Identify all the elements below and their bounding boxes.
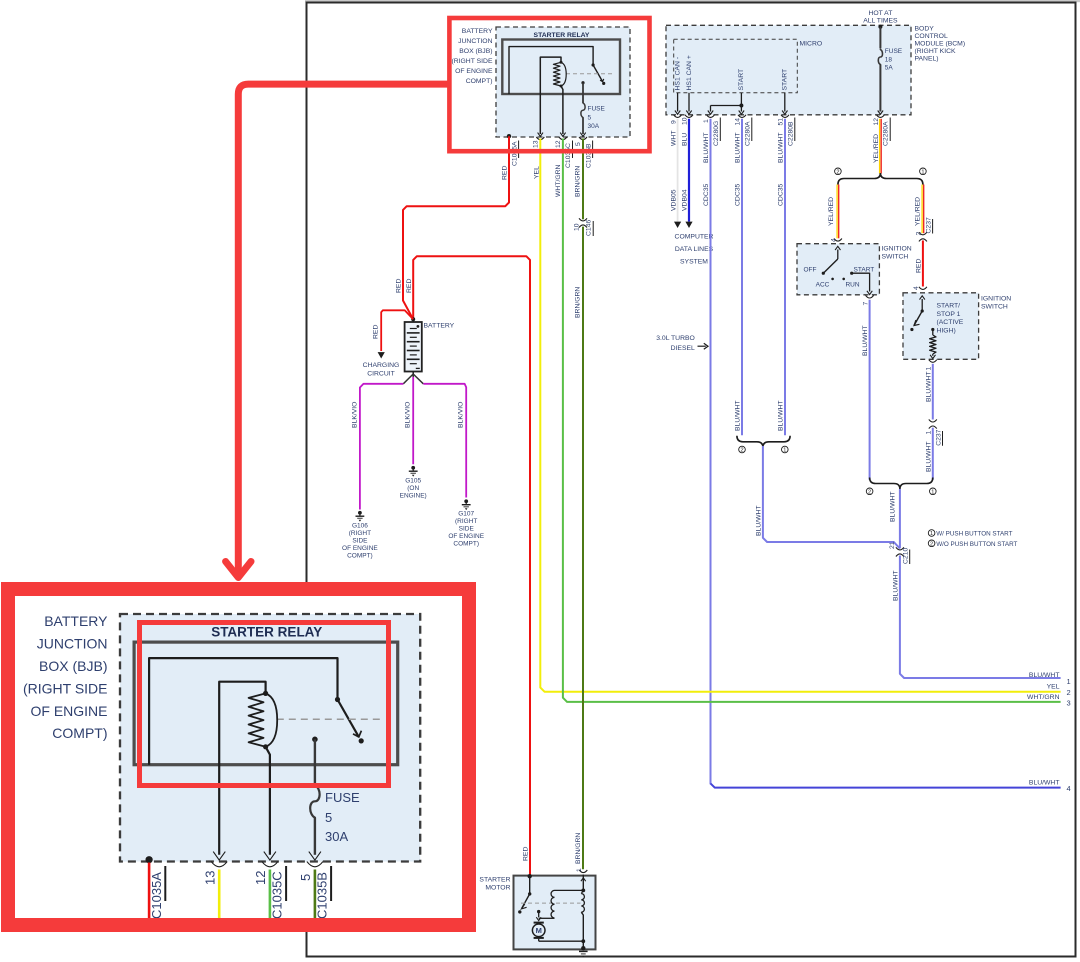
starter dashed line: [521, 902, 581, 904]
svg-text:G107: G107: [458, 511, 474, 518]
wire micro START to pin 51: [784, 93, 786, 112]
svg-text:STOP 1: STOP 1: [937, 311, 961, 318]
starter pull-in winding: [581, 890, 583, 893]
svg-text:5: 5: [588, 115, 592, 122]
svg-text:(ON: (ON: [407, 485, 419, 492]
svg-text:4: 4: [831, 238, 838, 242]
svg-text:C146: C146: [586, 220, 593, 236]
main diagram border frame: [307, 3, 1076, 957]
inset WHT/GRN wire: [269, 870, 272, 921]
ignition switch lever and contacts: [837, 250, 839, 260]
svg-text:(RIGHT: (RIGHT: [349, 530, 371, 537]
svg-text:ALL TIMES: ALL TIMES: [863, 18, 898, 25]
svg-text:C1035B: C1035B: [585, 143, 592, 168]
starter solenoid switch: [529, 876, 531, 894]
svg-text:VDB04: VDB04: [682, 189, 689, 211]
wire BLU/WHT to connector C210: [899, 489, 901, 548]
svg-text:YEL: YEL: [534, 166, 541, 179]
wire micro pin HS1 CAN - to BCM edge: [677, 93, 679, 112]
wire RED to start/stop switch: [922, 241, 924, 287]
connector C237 pin 2: [919, 232, 927, 235]
wire BLU/WHT 4 horizontal to right edge: [711, 783, 1061, 787]
svg-text:RUN: RUN: [845, 282, 859, 289]
bracket split YEL/RED: [838, 173, 923, 185]
svg-text:1: 1: [926, 431, 933, 435]
svg-text:BLU/WHT: BLU/WHT: [778, 132, 785, 163]
MICRO box inside BCM: [674, 39, 798, 93]
starter motor RED entry junction: [528, 874, 532, 878]
connector C237 pin 1: [929, 419, 937, 422]
svg-text:OF ENGINE: OF ENGINE: [342, 545, 378, 552]
svg-text:DATA LINES: DATA LINES: [675, 246, 714, 253]
wire RED from relay to battery: [403, 136, 509, 319]
svg-text:1: 1: [1067, 677, 1071, 686]
svg-text:STARTER RELAY: STARTER RELAY: [211, 625, 322, 640]
svg-text:HOT AT: HOT AT: [868, 10, 892, 17]
svg-text:START: START: [738, 69, 745, 91]
svg-text:1: 1: [703, 119, 710, 123]
starter ground: [581, 946, 585, 950]
svg-text:12: 12: [555, 140, 562, 148]
svg-text:BRN/GRN: BRN/GRN: [575, 166, 582, 197]
starter motor box: [514, 876, 596, 950]
start/stop switch lever: [921, 299, 923, 311]
svg-text:BLU/WHT: BLU/WHT: [862, 325, 869, 356]
svg-text:YEL: YEL: [1047, 684, 1060, 691]
bracket merge ignition wires: [870, 478, 933, 490]
svg-text:(ACTIVE: (ACTIVE: [937, 319, 964, 326]
wire micro pin HS1 CAN + to BCM edge: [688, 93, 690, 112]
svg-text:STARTER: STARTER: [479, 877, 510, 884]
inset yellow wire: [218, 870, 221, 921]
svg-text:BATTERY: BATTERY: [44, 613, 108, 629]
red zoom arrow: [238, 84, 449, 573]
svg-text:1: 1: [921, 169, 924, 175]
svg-text:JUNCTION: JUNCTION: [37, 636, 108, 652]
svg-text:RED: RED: [522, 847, 529, 861]
connector cups below BJB: [536, 137, 544, 140]
connector C146 pin 10: [579, 218, 587, 221]
wire BLU/WHT CDC35 pin1 long vertical: [710, 119, 712, 784]
svg-text:C237: C237: [925, 217, 932, 233]
relay outer case: [134, 642, 398, 765]
svg-text:BLU/WHT: BLU/WHT: [1029, 779, 1060, 786]
wire RED to charging circuit: [381, 310, 413, 351]
svg-text:13: 13: [203, 871, 218, 885]
relay pin 5 contact and fuse 5 30A: [581, 81, 584, 84]
wire BLU/WHT pin 14: [741, 119, 743, 436]
svg-text:W/ PUSH BUTTON START: W/ PUSH BUTTON START: [936, 531, 1012, 538]
inset connector cups: [211, 862, 227, 867]
svg-text:BLK/VIO: BLK/VIO: [351, 402, 358, 428]
svg-text:OF ENGINE: OF ENGINE: [30, 703, 107, 719]
svg-text:4: 4: [913, 286, 920, 290]
svg-text:CHARGING: CHARGING: [363, 362, 400, 369]
svg-text:1: 1: [930, 531, 933, 537]
svg-text:C1035C: C1035C: [565, 143, 572, 168]
page top gray strip: [305, 0, 1080, 2]
svg-text:BLU/WHT: BLU/WHT: [889, 491, 896, 522]
svg-text:MODULE (BCM): MODULE (BCM): [915, 41, 966, 48]
wire BLU/WHT 1 to right edge: [900, 556, 1061, 679]
svg-text:2: 2: [740, 448, 743, 454]
svg-text:5: 5: [575, 142, 582, 146]
svg-text:HS1 CAN -: HS1 CAN -: [674, 57, 681, 91]
svg-text:(RIGHT: (RIGHT: [455, 518, 477, 525]
svg-text:C1035C: C1035C: [270, 871, 285, 919]
fuse 18 5A feed wire: [878, 25, 882, 29]
svg-text:BLU/WHT: BLU/WHT: [926, 441, 933, 472]
svg-text:C2280B: C2280B: [787, 121, 794, 146]
BCM box (Body Control Module): [666, 25, 911, 115]
push-button ignition switch box: [903, 293, 979, 360]
svg-text:5A: 5A: [885, 65, 894, 72]
svg-text:BLU/WHT: BLU/WHT: [778, 400, 785, 431]
svg-text:13: 13: [532, 140, 539, 148]
relay pin 12 wire from coil: [266, 747, 270, 855]
svg-text:BATTERY: BATTERY: [424, 323, 455, 330]
svg-text:COMPT): COMPT): [52, 725, 107, 741]
svg-text:4: 4: [1067, 784, 1071, 793]
svg-text:SWITCH: SWITCH: [882, 254, 909, 261]
wire BLK/VIO to G105: [412, 374, 414, 377]
relay switch lever: [592, 63, 595, 66]
svg-text:G105: G105: [405, 478, 421, 485]
wire YEL/RED right branch: [921, 185, 923, 234]
svg-text:2: 2: [836, 169, 839, 175]
inset white backing: [15, 596, 462, 918]
svg-text:BLU/WHT: BLU/WHT: [926, 371, 933, 402]
svg-text:BLK/VIO: BLK/VIO: [458, 402, 465, 428]
inset red wire: [148, 863, 151, 921]
svg-text:HIGH): HIGH): [937, 327, 956, 334]
svg-text:ENGINE): ENGINE): [400, 493, 427, 500]
svg-text:OF ENGINE: OF ENGINE: [448, 533, 484, 540]
svg-text:SYSTEM: SYSTEM: [680, 259, 708, 266]
svg-text:1: 1: [926, 367, 933, 371]
svg-text:COMPT): COMPT): [347, 553, 373, 560]
svg-text:RED: RED: [396, 279, 403, 293]
inset inner red rectangle around relay: [140, 623, 389, 786]
relay coil: [560, 61, 563, 64]
svg-text:BLU/WHT: BLU/WHT: [755, 505, 762, 536]
BCM bottom connector cups: [674, 115, 682, 118]
svg-text:WHT/GRN: WHT/GRN: [555, 164, 562, 197]
svg-text:IGNITION: IGNITION: [882, 246, 912, 253]
relay dashed actuation line: [277, 718, 381, 720]
svg-text:SIDE: SIDE: [352, 538, 368, 545]
svg-text:PANEL): PANEL): [915, 56, 939, 63]
svg-text:51: 51: [778, 118, 785, 126]
wire YEL from relay pin 13: [540, 139, 1060, 692]
wire YEL/RED left branch: [836, 185, 838, 239]
wire WHT VDB05: [677, 119, 679, 222]
wire RED battery to starter motor: [413, 256, 530, 876]
wire BLU VDB04: [688, 119, 690, 222]
svg-text:BOX (BJB): BOX (BJB): [459, 48, 492, 55]
wire micro START pin 1 branch: [740, 93, 742, 106]
svg-text:G106: G106: [352, 523, 368, 530]
svg-text:HS1 CAN +: HS1 CAN +: [686, 55, 693, 90]
svg-text:WHT/GRN: WHT/GRN: [1027, 694, 1060, 701]
relay inner circuit path: [509, 47, 593, 94]
svg-text:30A: 30A: [325, 829, 348, 844]
svg-text:OF ENGINE: OF ENGINE: [455, 68, 493, 75]
starter motor M branch: [537, 910, 540, 913]
svg-text:2: 2: [916, 232, 923, 236]
svg-text:SWITCH: SWITCH: [981, 304, 1008, 311]
relay pin C1035A junction dot: [507, 134, 511, 138]
svg-text:3.0L TURBO: 3.0L TURBO: [656, 335, 695, 342]
starter BRN/GRN entry: [579, 870, 587, 873]
svg-text:BLU/WHT: BLU/WHT: [893, 570, 900, 601]
svg-text:BLU/WHT: BLU/WHT: [1029, 672, 1060, 679]
svg-text:BLU/WHT: BLU/WHT: [735, 132, 742, 163]
ignition switch START contact to pin 7: [850, 272, 853, 275]
wire YEL/RED from BCM pin 12: [879, 119, 881, 174]
svg-text:1: 1: [931, 489, 934, 495]
svg-text:C2280G: C2280G: [713, 121, 720, 146]
svg-text:(RIGHT KICK: (RIGHT KICK: [915, 48, 957, 55]
relay dashed actuation line: [566, 73, 613, 75]
svg-text:RED: RED: [406, 279, 413, 293]
svg-text:14: 14: [735, 118, 742, 126]
wire BLU/WHT bracket output to C210: [763, 446, 900, 549]
svg-text:9: 9: [670, 120, 677, 124]
svg-text:21: 21: [889, 541, 896, 549]
svg-text:BLU/WHT: BLU/WHT: [735, 400, 742, 431]
svg-text:C1035A: C1035A: [149, 872, 164, 919]
svg-text:5: 5: [325, 810, 332, 825]
svg-text:JUNCTION: JUNCTION: [458, 38, 492, 45]
wire WHT/GRN from relay pin 12: [563, 139, 1061, 702]
svg-text:BATTERY: BATTERY: [462, 28, 493, 35]
svg-text:VDB05: VDB05: [670, 189, 677, 211]
svg-text:RED: RED: [502, 166, 509, 180]
svg-text:CIRCUIT: CIRCUIT: [367, 371, 395, 378]
svg-text:SIDE: SIDE: [459, 526, 475, 533]
battery bottom junction: [412, 372, 414, 375]
wire BLK/VIO to G106: [403, 374, 413, 384]
svg-text:YEL/RED: YEL/RED: [828, 197, 835, 226]
svg-text:CONTROL: CONTROL: [915, 33, 948, 40]
svg-text:2: 2: [1067, 688, 1071, 697]
connector C210 pin 21: [896, 547, 904, 550]
fuse 18 5A: [878, 50, 882, 65]
svg-text:FUSE: FUSE: [588, 106, 606, 113]
svg-text:7: 7: [862, 302, 869, 306]
svg-text:1: 1: [783, 448, 786, 454]
svg-text:(RIGHT SIDE: (RIGHT SIDE: [451, 58, 493, 65]
svg-text:10: 10: [574, 223, 581, 231]
relay pin 13 wire: [219, 682, 265, 855]
wire BLK/VIO to G107: [413, 374, 423, 384]
svg-text:1: 1: [576, 868, 583, 872]
svg-text:C1035B: C1035B: [315, 872, 330, 919]
svg-text:BLK/VIO: BLK/VIO: [405, 402, 412, 428]
svg-text:2: 2: [930, 541, 933, 547]
svg-text:BLU: BLU: [682, 133, 689, 146]
relay switch lever: [335, 697, 340, 702]
relay coil: [263, 691, 268, 696]
svg-text:CDC35: CDC35: [778, 183, 785, 206]
relay pin 12 wire from coil: [561, 86, 563, 134]
battery: [405, 322, 422, 372]
svg-text:OFF: OFF: [804, 267, 817, 274]
red highlight box around starter relay: [449, 18, 649, 151]
ignition switch box (key): [797, 244, 879, 295]
svg-text:BRN/GRN: BRN/GRN: [575, 287, 582, 318]
inset BRN/GRN wire: [314, 870, 317, 921]
wire BRN/GRN from relay pin 5: [582, 139, 584, 220]
svg-text:RED: RED: [373, 325, 380, 339]
relay pin C1035A junction dot: [146, 856, 153, 863]
relay pin 5 contact and fuse 5 30A: [312, 737, 318, 743]
svg-text:COMPT): COMPT): [466, 78, 493, 85]
junction dot START branch: [739, 104, 743, 108]
wire BLU/WHT from ignition switch pin 7: [869, 300, 871, 480]
svg-text:MOTOR: MOTOR: [485, 885, 510, 892]
ground G106: [358, 511, 362, 515]
svg-text:BODY: BODY: [915, 26, 935, 33]
relay pin 13 wire: [540, 57, 561, 134]
svg-text:FUSE: FUSE: [325, 790, 360, 805]
svg-text:WHT: WHT: [670, 131, 677, 146]
svg-text:C237: C237: [935, 429, 942, 445]
relay inner circuit path: [149, 658, 337, 765]
svg-text:ACC: ACC: [816, 282, 830, 289]
svg-text:C2280A: C2280A: [744, 121, 751, 146]
svg-text:YEL/RED: YEL/RED: [915, 197, 922, 226]
svg-text:MICRO: MICRO: [800, 41, 823, 48]
svg-text:STARTER RELAY: STARTER RELAY: [534, 32, 590, 39]
svg-text:COMPT): COMPT): [453, 541, 479, 548]
svg-text:CDC35: CDC35: [703, 183, 710, 206]
svg-text:CDC35: CDC35: [735, 183, 742, 206]
svg-text:3: 3: [1067, 699, 1071, 708]
svg-text:FUSE: FUSE: [885, 48, 903, 55]
svg-text:START: START: [782, 69, 789, 91]
svg-text:BOX (BJB): BOX (BJB): [39, 658, 107, 674]
wire BLU/WHT pin 51: [784, 119, 786, 436]
svg-text:RED: RED: [916, 259, 923, 273]
svg-text:2: 2: [868, 489, 871, 495]
svg-text:IGNITION: IGNITION: [981, 296, 1011, 303]
start/stop resistor: [931, 328, 934, 331]
svg-text:12: 12: [253, 871, 268, 885]
svg-text:5: 5: [298, 874, 313, 881]
svg-text:30A: 30A: [588, 123, 600, 130]
svg-text:18: 18: [885, 57, 893, 64]
svg-text:COMPUTER: COMPUTER: [675, 234, 714, 241]
push button start legend: [928, 530, 935, 537]
inset red frame: [8, 589, 469, 925]
relay outer case: [502, 40, 620, 95]
svg-text:BLU/WHT: BLU/WHT: [703, 132, 710, 163]
svg-text:C210: C210: [903, 548, 910, 564]
BJB dashed box: [496, 27, 630, 137]
svg-text:10: 10: [682, 117, 689, 125]
svg-text:M: M: [536, 926, 542, 935]
svg-text:W/O PUSH BUTTON START: W/O PUSH BUTTON START: [936, 541, 1017, 548]
bracket merge pins 14+51: [737, 436, 790, 448]
svg-text:START/: START/: [937, 303, 961, 310]
svg-text:(RIGHT SIDE: (RIGHT SIDE: [23, 680, 108, 696]
BJB dashed box: [120, 614, 420, 862]
starter hold winding: [555, 889, 584, 891]
ground G105: [411, 466, 415, 470]
wire BLU/WHT from start/stop pin 1: [932, 364, 934, 420]
svg-text:C2280A: C2280A: [883, 121, 890, 146]
ground G107: [464, 499, 468, 503]
svg-text:DIESEL: DIESEL: [671, 345, 695, 352]
svg-text:BRN/GRN: BRN/GRN: [575, 833, 582, 864]
